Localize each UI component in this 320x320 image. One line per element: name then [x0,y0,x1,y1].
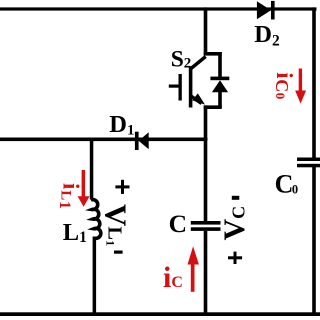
red arrow iC0 (down) [295,69,306,104]
label VL1 plus sign [115,180,129,194]
diode D2 [257,1,275,20]
inductor L1 coil [91,200,101,239]
capacitor C plates [191,221,221,231]
wire: S2 parallel-diode top horizontal [204,52,222,56]
wire: S2 parallel-diode bottom horizontal [204,105,222,109]
label VC minus sign [232,196,240,200]
wire: right branch lower segment [312,167,316,315]
wire: parallel-diode vertical upper [218,52,222,78]
wire: S2 branch bottom vertical (below cap C) [204,231,208,314]
wire: middle horizontal (D1 net) [0,138,208,142]
diode D1 [135,132,149,150]
svg-text:D1: D1 [109,111,134,139]
wire: right branch upper segment [312,7,316,157]
svg-text:C0: C0 [275,170,299,199]
svg-text:iC: iC [163,261,183,294]
wire: S2 branch top vertical [204,7,208,55]
red arrow iC (up) [188,246,199,292]
svg-text:D2: D2 [254,21,280,49]
wire: top rail [0,7,317,10]
body bar [189,67,193,108]
wire: L1 branch lower vertical [93,237,97,315]
capacitor C0 plates [297,158,320,168]
label VC plus sign [228,252,242,264]
svg-text:S2: S2 [171,46,192,72]
gate lead [169,85,181,88]
emitter arrowhead [192,93,205,104]
wire: parallel-diode vertical lower [218,91,222,108]
transistor S2 (IGBT) [169,57,206,108]
gate bar [179,74,182,101]
svg-text:C: C [169,209,187,238]
svg-text:VL1: VL1 [98,204,133,246]
anti-parallel diode of S2 [210,77,229,93]
wire: bottom rail [0,312,320,316]
svg-text:VC: VC [218,206,251,241]
wire: L1 branch upper vertical [90,138,94,200]
svg-text:iC0: iC0 [272,72,297,99]
svg-text:L1: L1 [63,219,87,246]
emitter diagonal [191,96,202,104]
wire: S2 branch mid vertical (to cap C) [204,105,208,221]
red arrow iL1 (down) [78,170,90,207]
collector diagonal [191,57,206,69]
label VL1 minus sign [114,251,123,254]
